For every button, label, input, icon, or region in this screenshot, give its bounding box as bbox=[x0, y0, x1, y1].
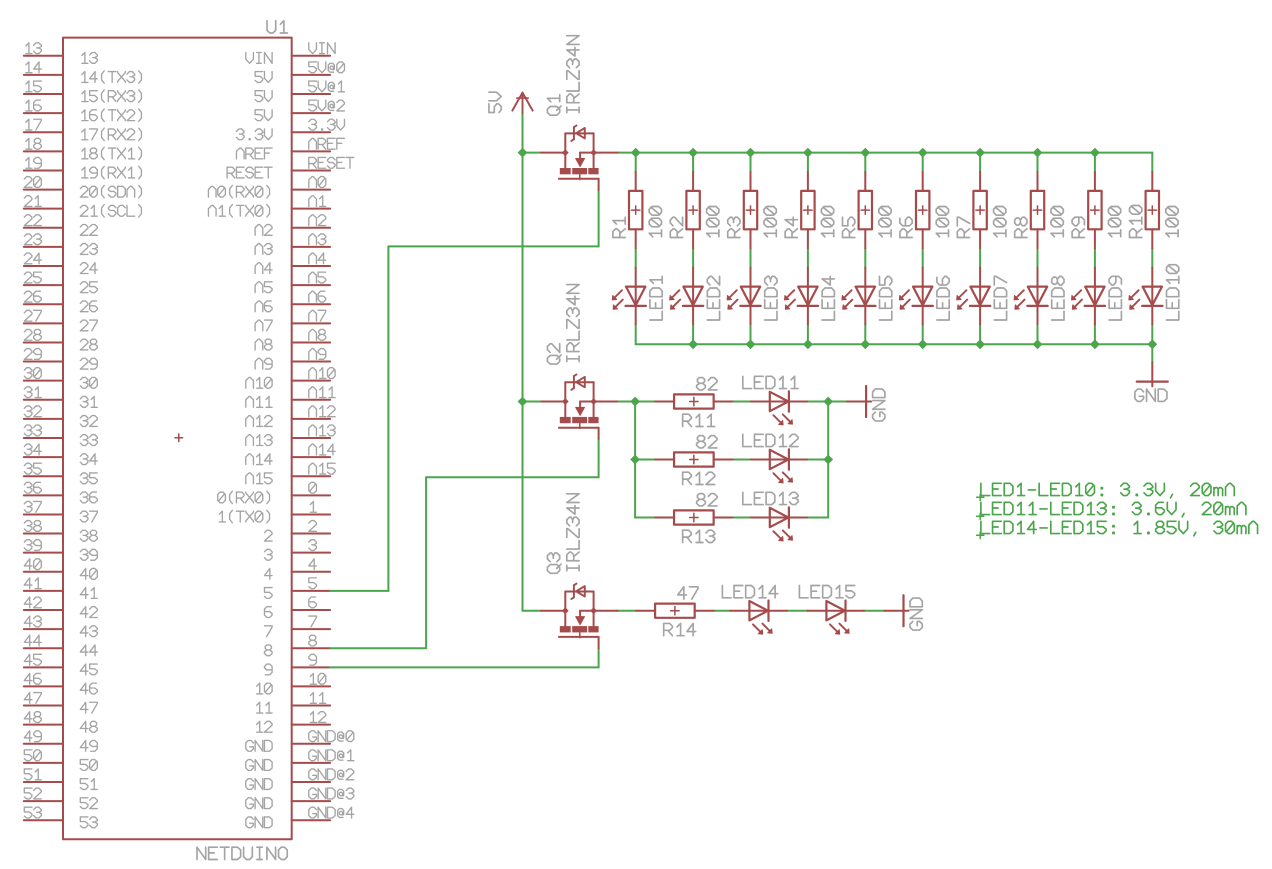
resistor R3 bbox=[750, 172, 752, 191]
U1 pin A13 (right side) bbox=[292, 437, 330, 439]
wire R13 to LED13 bbox=[733, 517, 751, 519]
R7 value label 100 bbox=[994, 206, 1006, 236]
note text LED11-LED13 bbox=[977, 515, 984, 517]
U1 pin 6 (right side) bbox=[292, 609, 330, 611]
U1 pin 7 (right side) bbox=[292, 628, 330, 630]
wire bottom cathode rail bbox=[636, 343, 1153, 345]
Q3 value label IRLZ34N bbox=[567, 494, 579, 571]
wire R8 to LED8 bbox=[1037, 248, 1039, 267]
U1 pin A1 (right side) bbox=[292, 208, 330, 210]
resistor R11 bbox=[655, 401, 674, 403]
wire LED7 cathode to bottom rail bbox=[979, 324, 981, 344]
U1 pin name 11 (inside right) bbox=[257, 702, 272, 713]
U1 pin A6 (right side) bbox=[292, 303, 330, 305]
U1 pin name 35 (inside left) bbox=[80, 473, 97, 484]
U1 pin name 39 (inside left) bbox=[80, 549, 97, 560]
LED LED14 bbox=[730, 610, 768, 612]
U1 pin 10 (right side) bbox=[292, 685, 330, 687]
U1 pin 5V@0 (right side) bbox=[292, 74, 330, 76]
U1 pin name 43 (inside left) bbox=[80, 626, 97, 637]
U1 pin name 34 (inside left) bbox=[80, 454, 97, 465]
U1 pin name A0(RX0) (inside right) bbox=[208, 185, 269, 197]
U1 pin A10 (right side) bbox=[292, 380, 330, 382]
U1 pin 15 (left side) bbox=[24, 93, 63, 95]
ground symbol GND (after LED11) bbox=[847, 401, 871, 403]
LED9 reference label bbox=[1109, 276, 1121, 320]
U1 pin 3 (right side) bbox=[292, 552, 330, 554]
R12 value label 82 bbox=[697, 436, 717, 448]
U1 pin name A12 (inside right) bbox=[246, 416, 272, 427]
LED LED12 bbox=[751, 459, 789, 461]
junction top rail column 4 bbox=[803, 148, 813, 158]
R3 value label 100 bbox=[764, 206, 776, 236]
R4 reference label bbox=[785, 217, 797, 237]
LED LED10 bbox=[1151, 268, 1153, 306]
junction LED11 cathode node bbox=[823, 397, 833, 407]
U1 pin 21 (left side) bbox=[24, 208, 63, 210]
power symbol 5V (arrow) bbox=[522, 93, 524, 115]
U1 pin name 18(TX1) (inside left) bbox=[82, 147, 142, 159]
U1 pin 18 (left side) bbox=[24, 150, 63, 152]
R6 reference label bbox=[900, 217, 912, 237]
U1 pin 26 (left side) bbox=[24, 303, 63, 305]
wire 5V rail to Q2 source pin bbox=[523, 401, 542, 403]
LED3 reference label bbox=[765, 276, 777, 320]
U1 pin 40 (left side) bbox=[24, 571, 63, 573]
U1 pin name 15(RX3) (inside left) bbox=[82, 90, 142, 102]
U1 pin 28 (left side) bbox=[24, 341, 63, 343]
LED LED1 bbox=[635, 268, 637, 306]
junction bottom rail column 9 bbox=[1090, 339, 1100, 349]
U1 pin 17 (left side) bbox=[24, 131, 63, 133]
junction at 5V rail / Q1 source bbox=[518, 148, 528, 158]
U1 pin name 20(SDA) (inside left) bbox=[80, 185, 141, 197]
wire Q2 drain branch down to R12 and R13 bbox=[634, 402, 636, 518]
U1 pin 48 (left side) bbox=[24, 724, 63, 726]
U1 pin name 4 (inside right) bbox=[264, 568, 272, 579]
junction top rail column 9 bbox=[1090, 148, 1100, 158]
U1 pin A4 (right side) bbox=[292, 265, 330, 267]
R11 reference label bbox=[683, 414, 715, 426]
U1 pin A12 (right side) bbox=[292, 418, 330, 420]
resistor R14 bbox=[636, 610, 655, 612]
wire cathode merge column bbox=[827, 402, 829, 518]
LED LED7 bbox=[979, 268, 981, 306]
ground symbol GND (after LED15) bbox=[884, 610, 908, 612]
op-amp U1 (NETDUINO IC symbol body) bbox=[63, 38, 292, 840]
R6 value label 100 bbox=[936, 206, 948, 236]
U1 pin name 26 (inside left) bbox=[80, 301, 97, 312]
U1 pin name GND (inside right) bbox=[246, 760, 272, 771]
wire rail to resistor R4 bbox=[807, 153, 809, 172]
U1 pin name 30 (inside left) bbox=[80, 377, 97, 388]
U1 pin 32 (left side) bbox=[24, 418, 63, 420]
junction top rail column 6 bbox=[918, 148, 928, 158]
U1 pin name A13 (inside right) bbox=[246, 435, 272, 446]
U1 pin 30 (left side) bbox=[24, 380, 63, 382]
U1 pin 16 (left side) bbox=[24, 112, 63, 114]
transistor Q3 IRLZ34N bbox=[541, 610, 565, 612]
wire LED1 cathode to bottom rail bbox=[635, 324, 637, 344]
U1 pin name A6 (inside right) bbox=[255, 301, 272, 312]
U1 pin 42 (left side) bbox=[24, 609, 63, 611]
wire R6 to LED6 bbox=[922, 248, 924, 267]
wire Q1 gate net bbox=[598, 190, 600, 246]
resistor R7 bbox=[979, 172, 981, 191]
U1 pin 9 (right side) bbox=[292, 666, 330, 668]
LED11 reference label bbox=[743, 376, 798, 388]
U1 pin name 6 (inside right) bbox=[264, 607, 272, 618]
U1 pin 5V@1 (right side) bbox=[292, 93, 330, 95]
U1 pin name 5V (inside right) bbox=[255, 72, 272, 83]
U1 reference designator label bbox=[267, 21, 287, 33]
U1 pin 36 (left side) bbox=[24, 494, 63, 496]
junction Q2 drain node bbox=[630, 397, 640, 407]
R1 value label 100 bbox=[649, 206, 661, 236]
U1 pin A15 (right side) bbox=[292, 475, 330, 477]
U1 pin 12 (right side) bbox=[292, 724, 330, 726]
wire R5 to LED5 bbox=[864, 248, 866, 267]
R13 value label 82 bbox=[697, 494, 717, 506]
LED8 reference label bbox=[1052, 276, 1064, 320]
U1 pin name A11 (inside right) bbox=[246, 396, 272, 407]
R5 reference label bbox=[843, 217, 855, 237]
U1 pin name A3 (inside right) bbox=[255, 244, 272, 255]
U1 pin name 38 (inside left) bbox=[80, 530, 97, 541]
R14 value label 47 bbox=[678, 587, 698, 599]
R1 reference label bbox=[613, 217, 625, 237]
U1 pin name A9 (inside right) bbox=[255, 358, 272, 369]
U1 pin name 31 (inside left) bbox=[80, 396, 97, 407]
U1 pin GND@4 (right side) bbox=[292, 819, 330, 821]
U1 pin GND@2 (right side) bbox=[292, 781, 330, 783]
wire LED10 cathode to bottom rail bbox=[1151, 324, 1153, 344]
junction bottom rail column 3 bbox=[746, 339, 756, 349]
wire LED3 cathode to bottom rail bbox=[750, 324, 752, 344]
resistor R13 bbox=[655, 517, 674, 519]
wire rail to resistor R9 bbox=[1094, 153, 1096, 172]
U1 pin 19 (left side) bbox=[24, 169, 63, 171]
R7 reference label bbox=[957, 217, 969, 237]
U1 pin 20 (left side) bbox=[24, 189, 63, 191]
resistor R5 bbox=[864, 172, 866, 191]
wire R12 to LED12 bbox=[733, 459, 751, 461]
U1 pin name 44 (inside left) bbox=[80, 645, 97, 656]
U1 pin name 24 (inside left) bbox=[80, 263, 97, 274]
U1 pin name 33 (inside left) bbox=[80, 435, 97, 446]
LED14 reference label bbox=[722, 586, 777, 598]
LED4 reference label bbox=[822, 276, 834, 320]
U1 pin 27 (left side) bbox=[24, 322, 63, 324]
resistor R12 bbox=[655, 459, 674, 461]
R2 value label 100 bbox=[707, 206, 719, 236]
U1 pin 31 (left side) bbox=[24, 399, 63, 401]
LED LED5 bbox=[864, 268, 866, 306]
junction top rail column 7 bbox=[975, 148, 985, 158]
wire LED9 cathode to bottom rail bbox=[1094, 324, 1096, 344]
5V net label bbox=[489, 92, 501, 112]
wire Q3 drain to R14 bbox=[617, 610, 636, 612]
U1 pin name 29 (inside left) bbox=[80, 358, 97, 369]
U1 pin name GND (inside right) bbox=[246, 817, 272, 828]
junction top rail column 2 bbox=[688, 148, 698, 158]
junction R12 branch bbox=[630, 455, 640, 465]
U1 pin 35 (left side) bbox=[24, 475, 63, 477]
wire LED2 cathode to bottom rail bbox=[692, 324, 694, 344]
wire Q3 source connection bbox=[523, 610, 542, 612]
U1 pin name 36 (inside left) bbox=[80, 492, 97, 503]
U1 pin name 5 (inside right) bbox=[264, 588, 272, 599]
U1 pin GND@0 (right side) bbox=[292, 743, 330, 745]
LED1 reference label bbox=[650, 276, 662, 320]
U1 pin 22 (left side) bbox=[24, 227, 63, 229]
U1 pin name AREF (inside right) bbox=[236, 148, 272, 159]
U1 pin name 25 (inside left) bbox=[80, 282, 97, 293]
U1 pin 39 (left side) bbox=[24, 552, 63, 554]
R12 reference label bbox=[683, 472, 715, 484]
junction bottom rail at GND drop bbox=[1147, 339, 1157, 349]
U1 pin name 12 (inside right) bbox=[257, 721, 272, 732]
U1 pin GND@1 (right side) bbox=[292, 762, 330, 764]
U1 pin 11 (right side) bbox=[292, 705, 330, 707]
U1 pin A3 (right side) bbox=[292, 246, 330, 248]
U1 pin name 22 (inside left) bbox=[80, 224, 97, 235]
wire 5V rail to Q1 source pin bbox=[523, 152, 542, 154]
wire R1 to LED1 bbox=[635, 248, 637, 267]
LED7 reference label bbox=[994, 276, 1006, 320]
U1 pin name 37 (inside left) bbox=[80, 511, 97, 522]
U1 pin name GND (inside right) bbox=[246, 740, 272, 751]
junction top rail column 8 bbox=[1033, 148, 1043, 158]
U1 pin GND@3 (right side) bbox=[292, 800, 330, 802]
resistor R4 bbox=[807, 172, 809, 191]
U1 pin 33 (left side) bbox=[24, 437, 63, 439]
U1 pin name 45 (inside left) bbox=[80, 664, 97, 675]
wire R4 to LED4 bbox=[807, 248, 809, 267]
resistor R10 bbox=[1151, 172, 1153, 191]
U1 pin name A4 (inside right) bbox=[255, 263, 272, 274]
junction bottom rail column 5 bbox=[860, 339, 870, 349]
U1 pin name RESET (inside right) bbox=[227, 167, 272, 178]
U1 pin name A10 (inside right) bbox=[246, 377, 272, 388]
U1 pin name 17(RX2) (inside left) bbox=[82, 128, 142, 140]
resistor R1 bbox=[635, 172, 637, 191]
Q3 reference label bbox=[547, 553, 561, 573]
U1 pin name GND (inside right) bbox=[246, 798, 272, 809]
wire LED6 cathode to bottom rail bbox=[922, 324, 924, 344]
U1 pin 46 (left side) bbox=[24, 685, 63, 687]
junction bottom rail column 6 bbox=[918, 339, 928, 349]
R10 reference label bbox=[1130, 205, 1142, 237]
wire Q3 gate net to pin 9 bbox=[598, 648, 600, 667]
U1 pin 1 (right side) bbox=[292, 513, 330, 515]
junction bottom rail column 7 bbox=[975, 339, 985, 349]
R5 value label 100 bbox=[879, 206, 891, 236]
U1 pin 38 (left side) bbox=[24, 533, 63, 535]
U1 pin name 27 (inside left) bbox=[80, 320, 97, 331]
LED LED11 bbox=[751, 401, 789, 403]
LED12 reference label bbox=[743, 434, 798, 446]
U1 pin name A15 (inside right) bbox=[246, 473, 272, 484]
wire rail to resistor R2 bbox=[692, 153, 694, 172]
U1 pin name A1(TX0) (inside right) bbox=[208, 205, 269, 217]
wire LED4 cathode to bottom rail bbox=[807, 324, 809, 344]
U1 pin name A2 (inside right) bbox=[255, 224, 272, 235]
Q1 value label IRLZ34N bbox=[567, 36, 579, 113]
LED6 reference label bbox=[937, 276, 949, 320]
U1 pin 24 (left side) bbox=[24, 265, 63, 267]
U1 pin name 23 (inside left) bbox=[80, 244, 97, 255]
Q1 reference label bbox=[547, 95, 561, 115]
ground symbol GND (below LED rail) bbox=[1151, 362, 1153, 386]
LED2 reference label bbox=[707, 276, 719, 320]
U1 pin 41 (left side) bbox=[24, 590, 63, 592]
U1 pin name 5V (inside right) bbox=[255, 110, 272, 121]
U1 pin A14 (right side) bbox=[292, 456, 330, 458]
U1 pin 43 (left side) bbox=[24, 628, 63, 630]
U1 pin 14 (left side) bbox=[24, 74, 63, 76]
U1 pin name 28 (inside left) bbox=[80, 339, 97, 350]
U1 pin name 21(SCL) (inside left) bbox=[80, 205, 141, 217]
U1 pin A5 (right side) bbox=[292, 284, 330, 286]
wire LED13 cathode to junction column bbox=[807, 517, 828, 519]
U1 pin name 1(TX0) (inside right) bbox=[219, 510, 269, 522]
U1 pin 50 (left side) bbox=[24, 762, 63, 764]
LED LED8 bbox=[1037, 268, 1039, 306]
wire rail to resistor R6 bbox=[922, 153, 924, 172]
U1 pin 25 (left side) bbox=[24, 284, 63, 286]
U1 pin 52 (left side) bbox=[24, 800, 63, 802]
U1 pin VIN (right side) bbox=[292, 55, 330, 57]
Q2 value label IRLZ34N bbox=[567, 285, 579, 362]
junction 5V rail / Q2 source bbox=[518, 397, 528, 407]
U1 pin AREF (right side) bbox=[292, 150, 330, 152]
wire R3 to LED3 bbox=[750, 248, 752, 267]
U1 pin 49 (left side) bbox=[24, 743, 63, 745]
U1 pin 0 (right side) bbox=[292, 494, 330, 496]
wire Q1 drain to LED resistor top rail bbox=[618, 152, 1153, 154]
U1 value label NETDUINO bbox=[197, 847, 287, 859]
U1 pin name 46 (inside left) bbox=[80, 683, 97, 694]
junction bottom rail column 8 bbox=[1033, 339, 1043, 349]
wire LED5 cathode to bottom rail bbox=[864, 324, 866, 344]
R14 reference label bbox=[664, 623, 696, 635]
U1 pin name 14(TX3) (inside left) bbox=[82, 71, 142, 83]
R13 reference label bbox=[683, 530, 715, 542]
LED13 reference label bbox=[743, 492, 798, 504]
U1 pin name 53 (inside left) bbox=[80, 817, 97, 828]
R2 reference label bbox=[670, 217, 682, 237]
note text LED1-LED10 bbox=[977, 496, 984, 498]
wire 5V vertical rail from supply arrow down to Q3 source bbox=[522, 115, 524, 611]
U1 pin name 9 (inside right) bbox=[264, 664, 272, 675]
U1 pin 8 (right side) bbox=[292, 647, 330, 649]
U1 origin cross bbox=[175, 437, 183, 439]
wire R2 to LED2 bbox=[692, 248, 694, 267]
wire Q2 gate net to pin 8 bbox=[598, 439, 600, 478]
U1 pin name GND (inside right) bbox=[246, 779, 272, 790]
U1 pin 4 (right side) bbox=[292, 571, 330, 573]
wire rail to resistor R10 bbox=[1151, 153, 1153, 172]
LED LED6 bbox=[922, 268, 924, 306]
wire LED14 to LED15 bbox=[787, 610, 808, 612]
LED5 reference label bbox=[880, 276, 892, 320]
wire LED8 cathode to bottom rail bbox=[1037, 324, 1039, 344]
wire R9 to LED9 bbox=[1094, 248, 1096, 267]
U1 pin 37 (left side) bbox=[24, 513, 63, 515]
U1 pin name 52 (inside left) bbox=[80, 798, 97, 809]
wire rail to resistor R5 bbox=[864, 153, 866, 172]
U1 pin 47 (left side) bbox=[24, 705, 63, 707]
junction bottom rail column 4 bbox=[803, 339, 813, 349]
U1 pin name 3 (inside right) bbox=[264, 549, 272, 560]
U1 pin name 49 (inside left) bbox=[80, 740, 97, 751]
Q2 reference label bbox=[547, 344, 561, 364]
U1 pin name 7 (inside right) bbox=[264, 626, 272, 637]
R4 value label 100 bbox=[821, 206, 833, 236]
R8 value label 100 bbox=[1051, 206, 1063, 236]
U1 pin name A14 (inside right) bbox=[246, 454, 272, 465]
wire Q2 drain node bbox=[618, 401, 636, 403]
R9 reference label bbox=[1072, 217, 1084, 237]
wire rail to resistor R8 bbox=[1037, 153, 1039, 172]
R10 value label 100 bbox=[1166, 206, 1178, 236]
LED LED3 bbox=[750, 268, 752, 306]
wire LED15 to GND symbol bbox=[864, 610, 884, 612]
U1 pin 3.3V (right side) bbox=[292, 131, 330, 133]
U1 pin 45 (left side) bbox=[24, 666, 63, 668]
wire bottom rail to GND symbol bbox=[1151, 344, 1153, 362]
LED LED9 bbox=[1094, 268, 1096, 306]
U1 pin A7 (right side) bbox=[292, 322, 330, 324]
GND label (LED15 ground) bbox=[910, 598, 922, 630]
transistor Q1 IRLZ34N bbox=[541, 152, 565, 154]
resistor R8 bbox=[1037, 172, 1039, 191]
wire R14 to LED14 bbox=[714, 610, 731, 612]
U1 pin 53 (left side) bbox=[24, 819, 63, 821]
R9 value label 100 bbox=[1108, 206, 1120, 236]
U1 pin name 5V (inside right) bbox=[255, 91, 272, 102]
LED15 reference label bbox=[799, 586, 854, 598]
wire LED11 cathode to GND and junction bbox=[807, 401, 847, 403]
wire R11 to LED11 bbox=[733, 401, 751, 403]
U1 pin name 13 (inside left) bbox=[82, 53, 97, 64]
U1 pin 34 (left side) bbox=[24, 456, 63, 458]
U1 pin name 48 (inside left) bbox=[80, 721, 97, 732]
junction bottom rail column 2 bbox=[688, 339, 698, 349]
junction top rail column 3 bbox=[746, 148, 756, 158]
U1 pin A11 (right side) bbox=[292, 399, 330, 401]
wire R7 to LED7 bbox=[979, 248, 981, 267]
U1 pin name 40 (inside left) bbox=[80, 568, 97, 579]
U1 pin 44 (left side) bbox=[24, 647, 63, 649]
U1 pin name 42 (inside left) bbox=[80, 607, 97, 618]
U1 pin 51 (left side) bbox=[24, 781, 63, 783]
U1 pin A2 (right side) bbox=[292, 227, 330, 229]
LED LED13 bbox=[751, 517, 789, 519]
U1 pin name VIN (inside right) bbox=[246, 53, 272, 64]
junction top rail column 5 bbox=[860, 148, 870, 158]
U1 pin 13 (left side) bbox=[24, 55, 63, 57]
U1 pin name 3.3V (inside right) bbox=[236, 129, 272, 140]
LED LED15 bbox=[807, 610, 845, 612]
resistor R9 bbox=[1094, 172, 1096, 191]
U1 pin name 16(TX2) (inside left) bbox=[82, 109, 142, 121]
U1 pin 2 (right side) bbox=[292, 533, 330, 535]
U1 pin 5 (right side) bbox=[292, 590, 330, 592]
LED LED4 bbox=[807, 268, 809, 306]
U1 pin name A5 (inside right) bbox=[255, 282, 272, 293]
